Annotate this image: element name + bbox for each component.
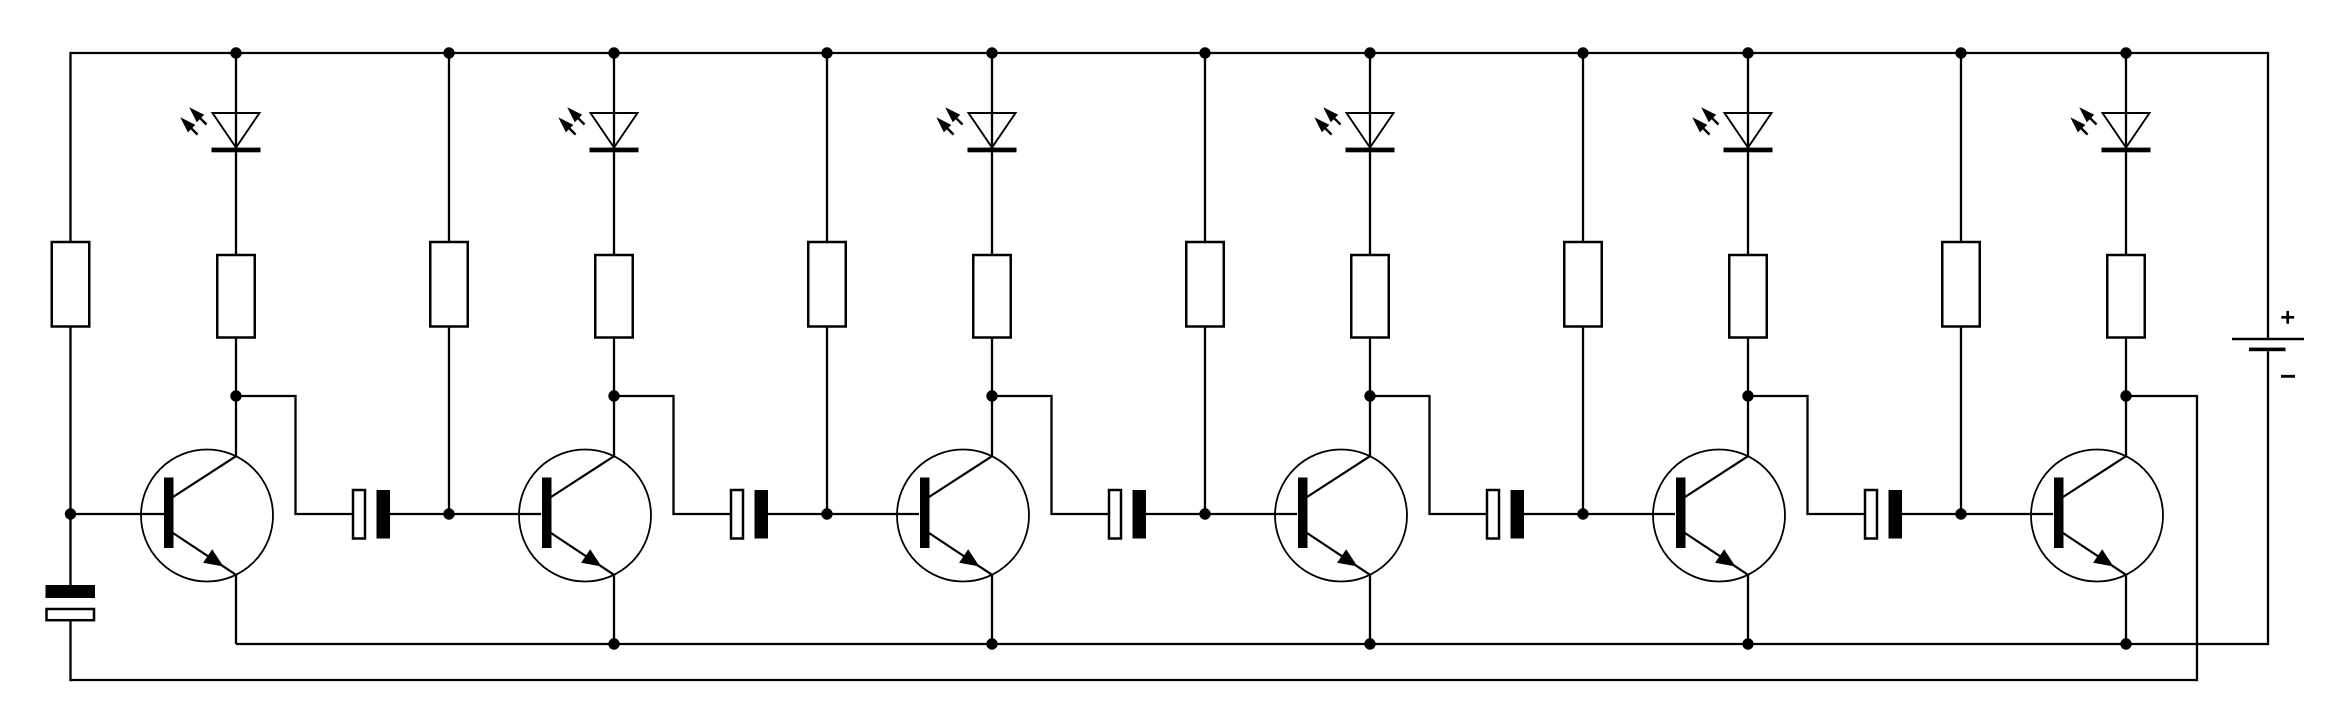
wire left supply drop to R1	[69, 52, 71, 242]
node supply rail junction (R7 column)	[1199, 47, 1210, 58]
transistor Q5	[1653, 450, 1785, 582]
resistor R12 (Q6 collector load)	[2107, 255, 2145, 338]
wire rail to R7	[1204, 53, 1206, 242]
wire rail to LED D3 anode	[991, 53, 993, 148]
LED D3	[936, 107, 1016, 152]
capacitor C5	[1865, 490, 1902, 539]
wire C4 to Q5 base	[1524, 513, 1675, 515]
resistor R10 (Q5 collector load)	[1729, 255, 1767, 338]
node Q3 base junction	[821, 508, 832, 519]
transistor Q2	[519, 450, 651, 582]
node Q6 base junction	[1955, 508, 1966, 519]
battery BT1	[2232, 339, 2304, 351]
wire emitter ground bus	[236, 643, 2268, 645]
resistor R9 (Q5 base bias)	[1564, 242, 1602, 327]
transistor Q6	[2031, 450, 2163, 582]
LED D4	[1314, 107, 1394, 152]
battery positive label +	[2281, 311, 2294, 324]
wire Q4 emitter to ground bus	[1369, 575, 1371, 644]
wire C6 to bottom feedback line	[69, 621, 71, 682]
wire rail to R5	[826, 53, 828, 242]
wire R4 to Q2 collector	[613, 338, 615, 457]
wire LED D3 cathode to resistor R6	[991, 152, 993, 255]
wire rail to LED D2 anode	[613, 53, 615, 148]
wire rail to R3	[448, 53, 450, 242]
wire Q1 collector jog	[236, 396, 353, 514]
node supply rail junction (LED D4 column)	[1364, 47, 1375, 58]
wire C5 to Q6 base	[1902, 513, 2053, 515]
node supply rail junction (R3 column)	[443, 47, 454, 58]
node Q1 collector junction	[230, 390, 241, 401]
LED D5	[1692, 107, 1772, 152]
node supply rail junction (LED D3 column)	[986, 47, 997, 58]
node supply rail junction (LED D1 column)	[230, 47, 241, 58]
node Q4 base junction	[1199, 508, 1210, 519]
wire R6 to Q3 collector	[991, 338, 993, 457]
LED D1	[180, 107, 260, 152]
wire R1 to Q1 base node	[69, 327, 71, 586]
resistor R1 (Q1 base bias)	[52, 242, 90, 327]
node Q5 collector junction	[1742, 390, 1753, 401]
node emitter bus junction (Q4)	[1364, 638, 1375, 649]
wire R9 to Q5 base node	[1582, 327, 1584, 515]
node supply rail junction (R11 column)	[1955, 47, 1966, 58]
node Q2 collector junction	[608, 390, 619, 401]
capacitor C1	[353, 490, 390, 539]
capacitor C4	[1487, 490, 1524, 539]
wire LED D2 cathode to resistor R4	[613, 152, 615, 255]
resistor R6 (Q3 collector load)	[973, 255, 1011, 338]
resistor R7 (Q4 base bias)	[1186, 242, 1224, 327]
LED D6	[2070, 107, 2150, 152]
node supply rail junction (R9 column)	[1577, 47, 1588, 58]
wire rail to R11	[1960, 53, 1962, 242]
wire R5 to Q3 base node	[826, 327, 828, 515]
wire Q1 base node to Q1 base	[71, 513, 165, 515]
wire battery negative to ground bus	[2267, 351, 2269, 645]
wire C3 to Q4 base	[1146, 513, 1297, 515]
wire R7 to Q4 base node	[1204, 327, 1206, 515]
resistor R5 (Q3 base bias)	[808, 242, 846, 327]
wire LED D1 cathode to resistor R2	[235, 152, 237, 255]
wire Q6 collector to feedback riser	[2126, 395, 2198, 397]
resistor R11 (Q6 base bias)	[1942, 242, 1980, 327]
wire Q1 emitter to ground bus	[235, 575, 237, 644]
wire LED D6 cathode to resistor R12	[2125, 152, 2127, 255]
capacitor C6 (feedback, polarized)	[46, 585, 96, 620]
transistor Q4	[1275, 450, 1407, 582]
wire Q2 collector jog	[614, 396, 731, 514]
wire LED D5 cathode to resistor R10	[1747, 152, 1749, 255]
resistor R8 (Q4 collector load)	[1351, 255, 1389, 338]
wire bottom feedback line	[69, 679, 2197, 681]
capacitor C2	[731, 490, 768, 539]
transistor Q1	[141, 450, 273, 582]
wire R12 to Q6 collector	[2125, 338, 2127, 457]
wire Q3 collector jog	[992, 396, 1109, 514]
wire R11 to Q6 base node	[1960, 327, 1962, 515]
wire R10 to Q5 collector	[1747, 338, 1749, 457]
wire R2 to Q1 collector	[235, 338, 237, 457]
node supply rail junction (LED D6 column)	[2120, 47, 2131, 58]
node Q3 collector junction	[986, 390, 997, 401]
resistor R3 (Q2 base bias)	[430, 242, 468, 327]
wire rail to R9	[1582, 53, 1584, 242]
node emitter bus junction (Q6)	[2120, 638, 2131, 649]
wire Q2 emitter to ground bus	[613, 575, 615, 644]
wire rail to LED D4 anode	[1369, 53, 1371, 148]
wire Q3 emitter to ground bus	[991, 575, 993, 644]
node Q1 base junction	[65, 508, 76, 519]
node emitter bus junction (Q5)	[1742, 638, 1753, 649]
node Q6 collector junction	[2120, 390, 2131, 401]
wire R8 to Q4 collector	[1369, 338, 1371, 457]
wire R3 to Q2 base node	[448, 327, 450, 515]
wire Q6 emitter to ground bus	[2125, 575, 2127, 644]
node emitter bus junction (Q2)	[608, 638, 619, 649]
battery negative label -	[2281, 375, 2295, 378]
node Q5 base junction	[1577, 508, 1588, 519]
wire feedback riser right	[2196, 396, 2198, 681]
LED D2	[558, 107, 638, 152]
wire rail to LED D6 anode	[2125, 53, 2127, 148]
node emitter bus junction (Q3)	[986, 638, 997, 649]
wire Q5 emitter to ground bus	[1747, 575, 1749, 644]
wire rail to battery positive	[2267, 52, 2269, 338]
wire Q4 collector jog	[1370, 396, 1487, 514]
wire Q5 collector jog	[1748, 396, 1865, 514]
wire C2 to Q3 base	[768, 513, 919, 515]
node supply rail junction (LED D2 column)	[608, 47, 619, 58]
resistor R2 (Q1 collector load)	[217, 255, 255, 338]
wire C1 to Q2 base	[390, 513, 541, 515]
wire rail to LED D5 anode	[1747, 53, 1749, 148]
node supply rail junction (LED D5 column)	[1742, 47, 1753, 58]
wire LED D4 cathode to resistor R8	[1369, 152, 1371, 255]
node supply rail junction (R5 column)	[821, 47, 832, 58]
resistor R4 (Q2 collector load)	[595, 255, 633, 338]
wire top supply rail	[71, 52, 2269, 54]
node Q4 collector junction	[1364, 390, 1375, 401]
capacitor C3	[1109, 490, 1146, 539]
node Q2 base junction	[443, 508, 454, 519]
transistor Q3	[897, 450, 1029, 582]
wire rail to LED D1 anode	[235, 53, 237, 148]
